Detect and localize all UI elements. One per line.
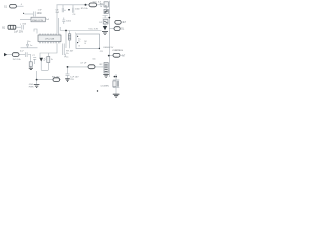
svg-text:min: min (92, 59, 95, 61)
svg-text:JTAG CON: JTAG CON (32, 19, 43, 22)
svg-text:10n: 10n (27, 41, 30, 43)
svg-text:4k7: 4k7 (122, 21, 127, 24)
svg-text:PWR: PWR (29, 86, 34, 88)
svg-text:4k7: 4k7 (121, 55, 126, 58)
svg-text:100n: 100n (66, 21, 72, 23)
svg-text:100n: 100n (37, 12, 43, 15)
svg-text:3V3 10k: 3V3 10k (13, 59, 22, 61)
svg-text:100n: 100n (75, 9, 81, 11)
svg-text:VCC 3.3V: VCC 3.3V (88, 28, 98, 30)
svg-text:USB-B 5V: USB-B 5V (103, 47, 114, 49)
svg-text:CONTROL: CONTROL (112, 50, 123, 52)
svg-text:D-: D- (78, 40, 80, 42)
svg-text:1k: 1k (51, 59, 53, 61)
svg-text:R5 10k: R5 10k (81, 8, 89, 10)
svg-text:1n: 1n (30, 45, 32, 47)
svg-text:RS 232: RS 232 (52, 76, 60, 78)
svg-text:12.0MHz: 12.0MHz (100, 86, 109, 88)
svg-text:4.7 uF: 4.7 uF (80, 62, 87, 64)
svg-text:1uF 25V: 1uF 25V (14, 30, 23, 33)
svg-text:LPC2148: LPC2148 (45, 39, 55, 41)
